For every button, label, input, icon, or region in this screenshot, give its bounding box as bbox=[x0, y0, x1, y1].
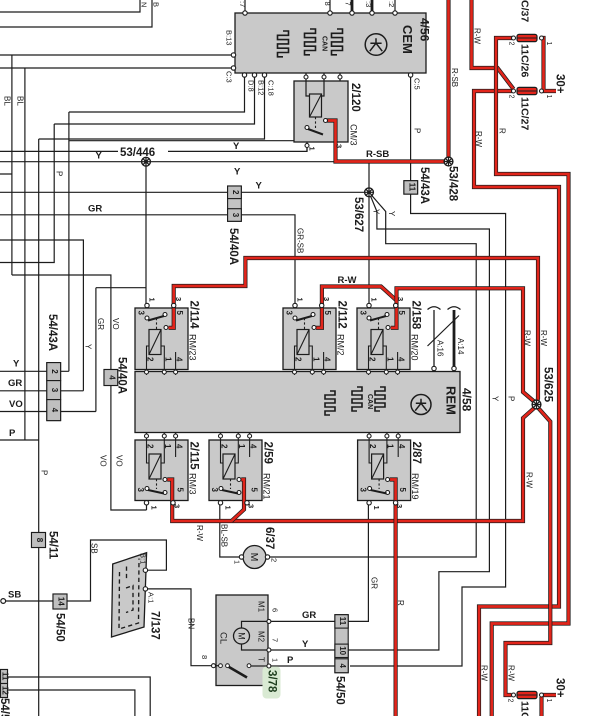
svg-text:BL: BL bbox=[3, 96, 12, 106]
svg-text:R-W: R-W bbox=[338, 275, 357, 286]
antenna coupling diagonal bbox=[428, 316, 460, 347]
relay 2/112 stub wires bbox=[294, 370, 296, 376]
wire color labels left side bbox=[3, 96, 305, 475]
relay 2/115 RM/3 body bbox=[135, 440, 188, 501]
relay 2/114 stub wires bbox=[146, 370, 148, 376]
svg-text:2/114: 2/114 bbox=[188, 301, 200, 330]
bottom wire labels bbox=[8, 524, 379, 666]
CEM pin B:8 wire bbox=[329, 0, 331, 13]
svg-text::3: :3 bbox=[364, 1, 373, 7]
svg-text:54/55: 54/55 bbox=[0, 698, 10, 716]
svg-text:SB: SB bbox=[8, 590, 21, 601]
2/120 pin 1 stub wire bbox=[306, 142, 308, 151]
svg-text:C/37: C/37 bbox=[519, 0, 531, 22]
svg-text:Y: Y bbox=[13, 359, 20, 370]
connector 54/xx bottom left bbox=[1, 670, 10, 698]
svg-text:11C: 11C bbox=[519, 701, 531, 716]
red wire bottom fuse pin 1 to 30+ and bottom edge bbox=[542, 695, 557, 716]
red wire R-SB from top edge to node 53/428 bbox=[446, 0, 450, 162]
node 53/446 vertical to 2/114 pin 1 with GR branch bbox=[96, 162, 146, 304]
motor 6/37 body bbox=[243, 546, 266, 569]
wire from bottom connector pin 11 bbox=[8, 677, 151, 716]
svg-text:A:14: A:14 bbox=[456, 338, 465, 355]
svg-text:2: 2 bbox=[220, 444, 229, 449]
wire SB riser top-left bbox=[0, 0, 152, 27]
svg-text:R-W: R-W bbox=[539, 330, 548, 346]
connector labels bbox=[0, 228, 346, 716]
relay 2/115 stub wires bbox=[146, 432, 148, 440]
svg-text:2/120: 2/120 bbox=[349, 83, 361, 112]
svg-text:54/43A: 54/43A bbox=[46, 314, 58, 351]
connector 54/43A pins 2-4 left bbox=[47, 363, 61, 421]
node 53/627 bbox=[365, 188, 374, 197]
svg-text:54/50: 54/50 bbox=[54, 613, 66, 642]
CL 3/78 pin circles bbox=[212, 619, 271, 668]
svg-text:VO: VO bbox=[111, 318, 120, 330]
svg-text:D:8: D:8 bbox=[247, 80, 256, 92]
svg-text:Y: Y bbox=[372, 209, 381, 215]
relay 2/158 RM/20 body bbox=[357, 308, 410, 370]
svg-text:RM/2: RM/2 bbox=[336, 334, 346, 356]
svg-text:12: 12 bbox=[1, 686, 10, 695]
node labels bbox=[120, 147, 554, 403]
relay 2/59 RM/21 body bbox=[209, 440, 262, 501]
svg-text:Y: Y bbox=[84, 344, 93, 350]
red wire R-W to relays 2/112 and 2/158 bbox=[316, 287, 397, 328]
CEM CAN bus wire pin C:3 bbox=[371, 0, 374, 13]
module CEM 4/56 body bbox=[235, 13, 426, 73]
antenna pin circles bbox=[432, 366, 456, 370]
relay 2/158 labels bbox=[359, 297, 422, 362]
wire Y from 53/627 to motor 6/37 pin 2 bbox=[270, 192, 477, 557]
CEM pin B:13 wire bbox=[0, 54, 233, 56]
7/137 pin circles bbox=[143, 568, 147, 591]
svg-text:4: 4 bbox=[175, 444, 184, 449]
svg-text:GR: GR bbox=[88, 204, 102, 215]
wire BL from C:3 bbox=[24, 68, 26, 440]
svg-text:53/446: 53/446 bbox=[120, 147, 155, 159]
node 53/625 bbox=[532, 400, 541, 409]
CEM to 2/120 stub wires bbox=[306, 73, 340, 81]
wire Y node line to 53/627 bbox=[0, 191, 369, 193]
wire SB from 54/50:14 to 7/137 B:1 bbox=[67, 540, 166, 601]
svg-text:54/50: 54/50 bbox=[334, 676, 346, 705]
svg-text:Y: Y bbox=[96, 151, 103, 162]
svg-text:1: 1 bbox=[164, 357, 173, 362]
red wire 30+ feed to top fuses bbox=[542, 38, 557, 91]
antenna element A:14 bbox=[448, 307, 461, 366]
svg-text:2: 2 bbox=[508, 42, 515, 46]
svg-text:B:1: B:1 bbox=[139, 553, 148, 564]
red wire node 53/625 to bottom relays R-W bbox=[167, 406, 536, 521]
svg-text:2: 2 bbox=[368, 444, 377, 449]
svg-text:2/87: 2/87 bbox=[410, 442, 422, 464]
red wire R from fuse 11C/26 pin 2 down right side to bottom edge bbox=[492, 38, 569, 716]
relay 2/87 labels bbox=[359, 442, 423, 510]
svg-text:1: 1 bbox=[545, 95, 552, 99]
svg-text:5: 5 bbox=[176, 488, 185, 493]
wire VO long branch to 2/115 pin 1 bbox=[12, 275, 147, 510]
P C:5 labels bbox=[372, 128, 516, 402]
svg-text:B:12: B:12 bbox=[257, 80, 266, 95]
motor 6/37 pin circles bbox=[239, 555, 269, 559]
svg-text::2: :2 bbox=[387, 1, 396, 7]
wire Y CL:7 to 54/50:10 bbox=[271, 649, 335, 651]
svg-text:1: 1 bbox=[237, 444, 246, 449]
svg-text:VO: VO bbox=[9, 399, 23, 410]
wire Y into 54/43A:2 bbox=[0, 370, 69, 372]
wire BL-SB from 2/59 pin 1 to motor 6/37 pin 1 bbox=[220, 505, 240, 557]
red wire node 53/625 to bottom fuse pin 2 bbox=[506, 406, 551, 695]
CEM pin A:7 wire bbox=[244, 0, 246, 13]
red wire fuse 11C/27 pin 2 down right side to bottom edge bbox=[474, 91, 559, 716]
svg-text:54/40A: 54/40A bbox=[116, 357, 128, 394]
svg-text:BN: BN bbox=[187, 618, 196, 629]
svg-text:1: 1 bbox=[545, 699, 552, 703]
REM clock symbol bbox=[411, 395, 431, 415]
red wire R from relay 2/87 to bottom edge bbox=[390, 480, 396, 716]
svg-text:4: 4 bbox=[50, 408, 59, 413]
svg-text:1: 1 bbox=[308, 147, 317, 151]
svg-text:Y: Y bbox=[256, 181, 263, 192]
module 7/137 immobilizer antenna body bbox=[112, 553, 147, 637]
wire GR CL:6 to 54/50:11 bbox=[271, 620, 335, 622]
relay 2/59 pin circles bbox=[218, 434, 251, 505]
svg-text:1: 1 bbox=[372, 506, 381, 510]
wire from bottom connector pin 12 bbox=[8, 690, 135, 716]
svg-text:R-W: R-W bbox=[474, 131, 483, 147]
svg-text:2: 2 bbox=[368, 357, 377, 362]
svg-text:Y: Y bbox=[233, 141, 240, 152]
svg-text:2: 2 bbox=[508, 95, 515, 99]
svg-text:5: 5 bbox=[250, 488, 259, 493]
svg-text:4: 4 bbox=[323, 357, 332, 362]
svg-text:C:3: C:3 bbox=[225, 71, 234, 83]
relay 2/112 RM/2 body bbox=[283, 308, 336, 370]
svg-text:1: 1 bbox=[312, 357, 321, 362]
svg-text:RM/3: RM/3 bbox=[188, 473, 198, 495]
svg-text:BL: BL bbox=[16, 96, 25, 106]
svg-text:P: P bbox=[287, 655, 294, 666]
wire horizontal y141 bbox=[69, 140, 294, 142]
svg-text:2/115: 2/115 bbox=[188, 442, 200, 471]
svg-text:P: P bbox=[9, 428, 16, 439]
svg-text:VO: VO bbox=[115, 455, 124, 467]
relay 2/115 labels bbox=[136, 442, 200, 510]
CEM pin C:18 wire bbox=[39, 75, 265, 139]
svg-text:RM/19: RM/19 bbox=[410, 473, 420, 500]
svg-text:11: 11 bbox=[407, 183, 416, 192]
wire Y from 53/627 to 54/50:10 bbox=[348, 192, 489, 650]
relay 2/112 labels bbox=[285, 297, 348, 362]
svg-text:R-SB: R-SB bbox=[366, 149, 389, 160]
wire vertical B:12 branch bbox=[0, 124, 54, 263]
svg-text:3: 3 bbox=[173, 504, 182, 508]
fuse 11C/27 bbox=[512, 87, 544, 94]
node 53/446 bbox=[118, 145, 168, 158]
svg-text:GR: GR bbox=[96, 318, 105, 330]
svg-text:1: 1 bbox=[545, 42, 552, 46]
svg-text:2: 2 bbox=[270, 558, 279, 562]
connector 54/50 pins 11-10-4 bbox=[335, 615, 348, 673]
wire BN from 7/137 A:1 to CL pin 8 bbox=[148, 589, 212, 666]
svg-text:CAN: CAN bbox=[321, 36, 328, 51]
svg-text:CM/3: CM/3 bbox=[349, 124, 359, 146]
CEM pin C:3 wire bbox=[0, 67, 233, 69]
svg-text:2: 2 bbox=[507, 699, 514, 703]
svg-text:R-W: R-W bbox=[523, 330, 532, 346]
svg-text:R: R bbox=[396, 600, 405, 606]
svg-text:R-W: R-W bbox=[525, 472, 534, 488]
svg-text:B: B bbox=[152, 2, 161, 7]
svg-text:4: 4 bbox=[249, 444, 258, 449]
svg-text:CAN: CAN bbox=[366, 394, 373, 409]
CEM clock symbol bbox=[365, 34, 387, 56]
30+ labels bbox=[554, 74, 566, 698]
relay 2/87 pin circles bbox=[367, 434, 400, 505]
svg-text:C:5: C:5 bbox=[413, 78, 422, 90]
svg-text:RM/21: RM/21 bbox=[262, 473, 272, 500]
svg-text:M2: M2 bbox=[257, 631, 266, 643]
svg-text:C:18: C:18 bbox=[267, 80, 276, 96]
relay 2/114 RM/23 body bbox=[135, 308, 188, 370]
svg-text:11: 11 bbox=[338, 617, 347, 626]
svg-text:3: 3 bbox=[136, 488, 145, 493]
svg-text:A:16: A:16 bbox=[436, 340, 445, 357]
svg-text:1: 1 bbox=[386, 444, 395, 449]
relay 2/112 pin circles bbox=[293, 303, 326, 374]
svg-text:GR: GR bbox=[8, 378, 22, 389]
svg-text:3: 3 bbox=[50, 388, 59, 393]
svg-text:Y: Y bbox=[234, 167, 241, 178]
svg-text:3: 3 bbox=[396, 297, 405, 301]
relay 2/87 stub wires bbox=[368, 432, 370, 440]
svg-text:5: 5 bbox=[175, 311, 184, 316]
svg-text:11: 11 bbox=[1, 672, 10, 681]
svg-text::7: :7 bbox=[238, 1, 247, 7]
svg-text:Y: Y bbox=[491, 396, 500, 402]
svg-text:Y: Y bbox=[302, 639, 309, 650]
svg-text:P: P bbox=[507, 396, 516, 401]
svg-text:M: M bbox=[248, 553, 260, 562]
svg-text:1: 1 bbox=[233, 560, 242, 564]
svg-text:3: 3 bbox=[285, 311, 294, 316]
wire Y y240 branch bbox=[0, 240, 83, 391]
svg-text:P: P bbox=[40, 470, 49, 475]
svg-text:7: 7 bbox=[344, 2, 353, 6]
svg-text:1: 1 bbox=[150, 506, 159, 510]
relay 2/158 stub wires bbox=[368, 370, 370, 376]
svg-text:BL-SB: BL-SB bbox=[220, 524, 229, 547]
svg-text:3: 3 bbox=[137, 311, 146, 316]
svg-text:3/78: 3/78 bbox=[266, 670, 278, 693]
REM CAN interface symbol bbox=[352, 387, 385, 411]
connector 54/11 pin 8 bbox=[32, 533, 46, 548]
svg-text:B:13: B:13 bbox=[225, 30, 234, 45]
svg-text:CEM: CEM bbox=[400, 25, 415, 54]
svg-text:VO: VO bbox=[99, 455, 108, 467]
svg-text:3: 3 bbox=[359, 311, 368, 316]
7/137 labels bbox=[139, 553, 161, 640]
svg-text:M1: M1 bbox=[257, 601, 266, 613]
svg-text:P: P bbox=[55, 171, 64, 176]
antenna labels bbox=[436, 338, 466, 357]
red wire relay 2/59 branch bbox=[232, 480, 245, 522]
svg-text:30+: 30+ bbox=[554, 678, 566, 698]
svg-text:N: N bbox=[140, 2, 149, 7]
node 53/428 bbox=[444, 157, 453, 166]
svg-text:54/40A: 54/40A bbox=[227, 228, 239, 265]
relay 2/114 labels bbox=[137, 297, 200, 362]
wire GR riser to 54/43A pin 3 bbox=[95, 288, 97, 412]
svg-text:6: 6 bbox=[271, 608, 280, 612]
wire VO into 54/43A:4 bbox=[0, 411, 96, 413]
svg-text:1: 1 bbox=[163, 444, 172, 449]
fuse 11C bottom bbox=[512, 691, 544, 698]
svg-text:8: 8 bbox=[200, 655, 209, 659]
svg-text:2: 2 bbox=[294, 357, 303, 362]
red wire 54/40A feed to relay 2/114 and node 53/625 bbox=[169, 258, 539, 404]
svg-text:REM: REM bbox=[444, 386, 459, 415]
svg-text:5: 5 bbox=[323, 311, 332, 316]
svg-text:5: 5 bbox=[397, 311, 406, 316]
relay 2/120 CM/3 body bbox=[294, 81, 348, 142]
wire GR-SB to 2/112 pin 1 bbox=[0, 215, 295, 304]
wire P from 54/43A:11 to 54/50:4 bbox=[350, 194, 506, 666]
svg-text:53/428: 53/428 bbox=[447, 166, 459, 202]
wire GR from 2/87 pin 1 to 54/50:11 bbox=[348, 505, 368, 621]
antenna element A:16 bbox=[428, 307, 441, 366]
svg-text:7: 7 bbox=[271, 638, 280, 642]
svg-text:3: 3 bbox=[210, 488, 219, 493]
relay 2/87 RM/19 body bbox=[358, 440, 411, 501]
wire SB terminal to 54/50:14 bbox=[6, 600, 54, 602]
CEM CAN interface symbol bbox=[305, 29, 343, 55]
relay 2/120 labels bbox=[308, 83, 362, 151]
svg-text:A:1: A:1 bbox=[147, 592, 156, 603]
red wire R-SB from relay 2/120 to node 53/428 bbox=[327, 121, 449, 162]
REM coding resistor symbol bbox=[325, 391, 335, 415]
svg-text:6/37: 6/37 bbox=[263, 527, 275, 549]
SB terminal circle bbox=[1, 599, 6, 604]
wire Y to 2/120 pin 1 bbox=[0, 146, 307, 151]
svg-text:3: 3 bbox=[359, 488, 368, 493]
svg-text:RM/23: RM/23 bbox=[188, 334, 198, 361]
svg-text:1: 1 bbox=[271, 658, 280, 662]
svg-text:R-W: R-W bbox=[480, 665, 489, 681]
connector 54/50 pin 14 bbox=[53, 594, 67, 609]
wire P CL:1 to 54/50:4 bbox=[271, 665, 335, 667]
wire BN riser top-left bbox=[0, 0, 140, 12]
svg-text:1: 1 bbox=[386, 357, 395, 362]
svg-text:54/43A: 54/43A bbox=[418, 167, 430, 204]
fuse 11C/26 bbox=[512, 34, 544, 41]
CEM pin C:2 wire bbox=[394, 0, 396, 13]
svg-text:10: 10 bbox=[338, 646, 347, 655]
svg-text:4/56: 4/56 bbox=[418, 18, 432, 42]
wire BL from B:13 bbox=[0, 55, 12, 275]
svg-text:3: 3 bbox=[231, 213, 240, 218]
svg-text:11C/27: 11C/27 bbox=[519, 97, 531, 130]
svg-text:SB: SB bbox=[90, 543, 99, 554]
connector 54/43A pin 11 bbox=[404, 181, 418, 194]
wire P to 54/11 junction bbox=[0, 439, 39, 441]
svg-text:53/625: 53/625 bbox=[542, 367, 554, 403]
svg-text:3: 3 bbox=[174, 297, 183, 301]
svg-text:3: 3 bbox=[247, 504, 256, 508]
relay 2/158 pin circles bbox=[367, 303, 400, 374]
top-left wire labels bbox=[140, 2, 161, 7]
connector 54/40A pins 2-3 bbox=[228, 186, 242, 221]
svg-text:P: P bbox=[413, 128, 422, 133]
svg-text:5: 5 bbox=[398, 488, 407, 493]
svg-text:14: 14 bbox=[57, 597, 66, 606]
red wire labels bbox=[195, 28, 548, 681]
svg-text:2: 2 bbox=[146, 357, 155, 362]
relay 2/59 labels bbox=[210, 442, 274, 510]
svg-text:T: T bbox=[257, 657, 266, 662]
svg-text:GR: GR bbox=[370, 577, 379, 589]
svg-text:2: 2 bbox=[231, 190, 240, 195]
relay 2/59 stub wires bbox=[220, 432, 222, 440]
wire 53/627 riser to 2/158 pin 1 bbox=[368, 162, 370, 304]
CEM pin C:5 wire P bbox=[410, 73, 412, 181]
CEM pin B:12 wire bbox=[54, 75, 254, 124]
svg-text:Y: Y bbox=[387, 211, 396, 217]
svg-text:4: 4 bbox=[397, 357, 406, 362]
wire P vertical to 54/11 and bottom edge bbox=[38, 139, 40, 716]
svg-text:R-W: R-W bbox=[473, 28, 482, 44]
module REM 4/58 body bbox=[135, 372, 460, 433]
svg-text:CL: CL bbox=[218, 632, 229, 644]
svg-text:4: 4 bbox=[397, 444, 406, 449]
fuse labels bbox=[507, 0, 553, 716]
motor 6/37 labels bbox=[233, 527, 279, 564]
svg-text:RM/20: RM/20 bbox=[410, 334, 420, 361]
svg-text:4/58: 4/58 bbox=[460, 388, 474, 412]
module 3/78 central locking CL body bbox=[214, 595, 269, 686]
label 3/78 highlight bbox=[263, 667, 281, 699]
wire GR into 54/43A:3 bbox=[0, 390, 83, 392]
svg-text:R: R bbox=[498, 128, 507, 134]
svg-text:R-SB: R-SB bbox=[450, 68, 459, 87]
svg-text:4: 4 bbox=[107, 375, 116, 380]
svg-text:7/137: 7/137 bbox=[149, 611, 161, 640]
svg-text:1: 1 bbox=[224, 506, 233, 510]
svg-text:3: 3 bbox=[335, 144, 344, 148]
svg-text:1: 1 bbox=[370, 298, 379, 302]
red wire R-W from top edge to fuse 11C/27 bbox=[472, 0, 514, 89]
svg-text:8: 8 bbox=[323, 2, 332, 6]
svg-text:2/59: 2/59 bbox=[262, 442, 274, 464]
svg-text:1: 1 bbox=[296, 298, 305, 302]
svg-text:3: 3 bbox=[322, 297, 331, 301]
svg-text:1: 1 bbox=[148, 298, 157, 302]
svg-text:2: 2 bbox=[146, 444, 155, 449]
svg-text:2: 2 bbox=[50, 369, 59, 374]
relay 2/120 pin circles bbox=[305, 119, 328, 148]
svg-text:30+: 30+ bbox=[554, 74, 566, 94]
wire Y main through node 53/446 bbox=[0, 161, 369, 163]
relay 2/114 pin circles bbox=[145, 303, 178, 374]
svg-text:54/11: 54/11 bbox=[47, 531, 59, 560]
connector 54/40A pin 4 bbox=[104, 370, 118, 386]
svg-text:GR-SB: GR-SB bbox=[296, 228, 305, 253]
CEM CAN bus wire pin 7 bbox=[351, 0, 354, 13]
CL 3/78 labels bbox=[200, 601, 280, 693]
svg-text:R-W: R-W bbox=[195, 525, 204, 541]
svg-text:4: 4 bbox=[175, 357, 184, 362]
